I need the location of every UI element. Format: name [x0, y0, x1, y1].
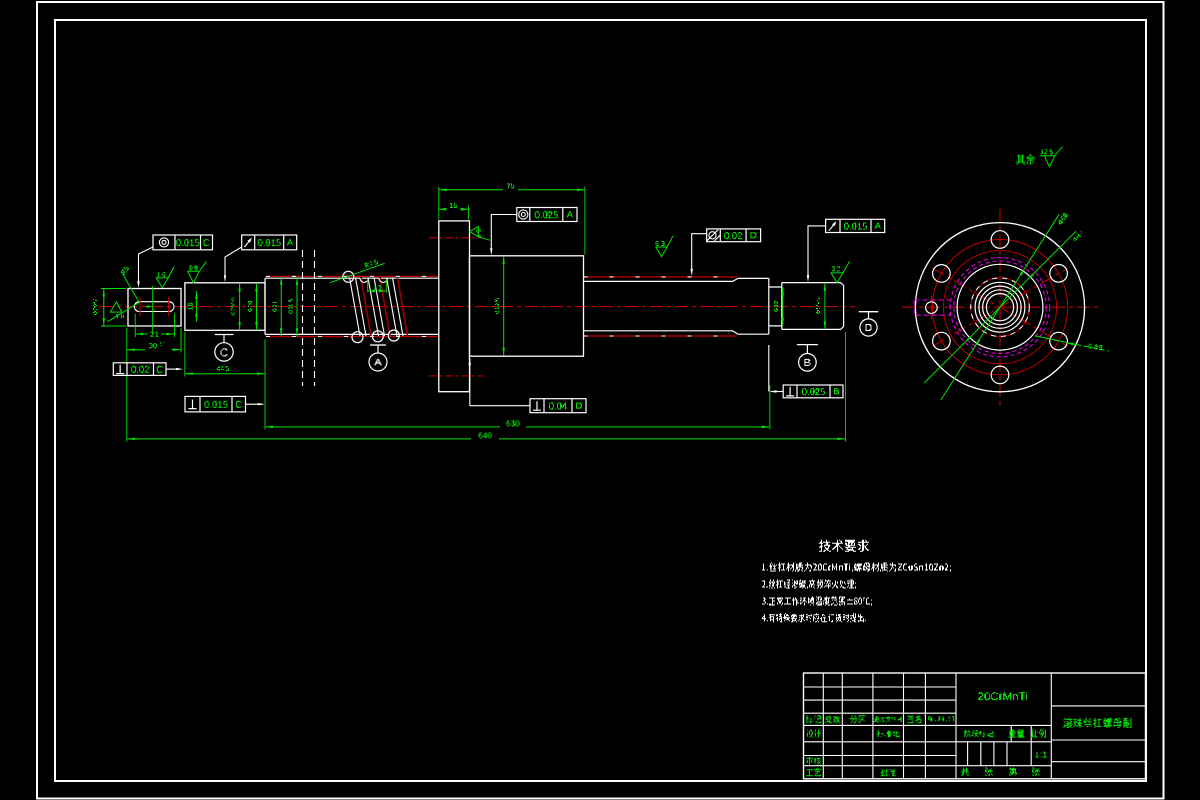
white circle r14 — [986, 294, 1013, 321]
FCF concentricity 0.015 C — [153, 235, 213, 250]
thread2 top line — [584, 280, 734, 282]
FCF runout 0.015 A right — [826, 219, 885, 232]
thread1 root bottom line red — [266, 336, 439, 338]
scale 1:1 — [1036, 752, 1047, 758]
ball circle bottom 3 — [388, 330, 399, 341]
white circle r17 — [983, 290, 1018, 325]
tech req line 2 — [762, 580, 856, 589]
FCF cylindricity 0.02 D — [707, 229, 761, 242]
shaft centerline — [100, 306, 855, 308]
relief groove — [769, 283, 782, 330]
taper thread to journal — [733, 278, 739, 334]
dimension d36.5 thread crest — [296, 277, 298, 336]
datum D — [859, 311, 879, 313]
material 20CrMnTi — [978, 692, 1027, 700]
magenta dashed circle outer — [950, 258, 1049, 357]
white circle r21 — [979, 286, 1021, 328]
keyway hole centerline — [930, 296, 932, 320]
surface finish 0.8 on seg2 — [188, 262, 207, 283]
dimension 44.5 seg2 length — [184, 332, 186, 377]
title block outer — [804, 673, 1146, 779]
dimension 630 — [264, 340, 266, 430]
general surface roughness 12.5 with qiyu — [1016, 155, 1035, 165]
dimension 16 — [195, 291, 197, 322]
flange outer circle — [915, 223, 1084, 392]
dimension 15 flange width — [467, 206, 469, 220]
shoulder face seg2/thread — [264, 278, 266, 334]
dimension d20 seg2 — [256, 283, 258, 330]
shaft segment 1 (left journal) — [128, 289, 181, 327]
dimension 21 keyway length — [134, 314, 136, 338]
thread1 crest bottom line — [265, 333, 439, 335]
thread2 root top red — [584, 276, 738, 278]
green dim line 45deg d47 — [924, 231, 1076, 383]
datum B — [797, 344, 818, 346]
shaft segment 2 — [185, 283, 265, 331]
keyway hidden rect — [914, 300, 950, 315]
ball circle top-left — [343, 271, 354, 282]
leader R5 keyway end radius — [123, 274, 140, 303]
end view centerlines — [902, 306, 1098, 308]
FCF perpendicularity 0.015 C — [185, 396, 246, 412]
flange bolt hole centerline lower — [429, 375, 483, 377]
thread1 bottom white dashes — [266, 336, 439, 338]
tech req line 4 — [762, 613, 866, 622]
end journal — [782, 283, 844, 330]
red circle r56 — [943, 251, 1056, 364]
leader 6-d9 bolt holes — [1035, 336, 1076, 345]
dimension d52 nut bore — [503, 256, 505, 355]
dimension d25h6 — [239, 283, 241, 330]
white circle r43 — [957, 264, 1043, 350]
bolt circle red — [932, 240, 1067, 375]
thread2 top white dashes — [584, 276, 738, 278]
sheet labels — [961, 768, 969, 776]
keyway arc centerline left — [139, 297, 141, 316]
dimension d12 groove — [782, 287, 784, 326]
small hole in keyway detail — [926, 302, 938, 314]
ball circle bottom 1 — [352, 332, 363, 343]
dimension d20 left end — [103, 289, 105, 327]
white dashed circle thread — [971, 278, 1030, 337]
surface finish 3.2 end journal — [831, 261, 850, 282]
datum C — [215, 334, 234, 336]
thread2 root bottom red — [584, 335, 738, 337]
ball screw helix coil — [350, 278, 361, 337]
leader R4.5 ball radius — [330, 263, 385, 282]
flange disc side view — [439, 221, 470, 392]
keyway center line vertical — [152, 286, 154, 334]
dimension d15 end journal — [824, 283, 826, 330]
end view diagonal centerlines 30/150 deg — [933, 268, 1068, 346]
red circle thread — [971, 278, 1030, 337]
break line 1 — [302, 250, 304, 386]
surface finish 1.6 flange face — [470, 226, 490, 240]
FCF concentricity 0.025 A — [517, 208, 577, 222]
FCF perpendicularity 0.025 B — [783, 385, 843, 398]
drawing title — [1064, 718, 1132, 728]
tech req line 3 — [762, 597, 872, 606]
thread2 bottom white dashes — [584, 335, 738, 337]
nut / bearing housing body — [470, 256, 584, 356]
extension line left end — [126, 328, 128, 442]
keyway slot on segment 1 — [134, 302, 174, 312]
flange bolt hole centerline upper — [429, 237, 483, 239]
tech req line 1 — [762, 563, 951, 572]
FCF runout 0.015 A top — [242, 235, 297, 250]
surface finish 1.6 on seg1 — [156, 267, 174, 288]
dimension 10 thread pitch — [367, 279, 369, 293]
thread1 crest top line — [265, 277, 439, 279]
thread1 root top line red — [266, 275, 439, 277]
datum A — [370, 344, 386, 346]
title block labels — [806, 715, 821, 723]
FCF perpendicularity 0.02 C — [113, 363, 166, 376]
thread2 bottom line — [584, 330, 734, 332]
dimension d31 thread root — [280, 277, 282, 336]
surface finish 6.3 thread — [656, 236, 673, 257]
green dim line 57deg d68 — [941, 214, 1059, 400]
keyway arc centerline right — [168, 297, 170, 316]
ball circle bottom 2 — [372, 331, 383, 342]
technical requirements title — [819, 540, 869, 552]
dimension 640 overall — [844, 332, 846, 442]
dimension 75 flange+nut — [438, 187, 440, 220]
break line 2 — [314, 250, 316, 386]
magenta dashed circle inner — [954, 261, 1046, 353]
journal large — [738, 278, 769, 334]
white circle r25 — [975, 282, 1025, 332]
title block grid — [822, 673, 824, 779]
thread1 top white dashes — [266, 275, 439, 277]
FCF perpendicularity 0.04 D — [530, 399, 586, 413]
six bolt holes — [991, 231, 1009, 249]
surface finish 1.8 keyway face — [107, 302, 140, 322]
